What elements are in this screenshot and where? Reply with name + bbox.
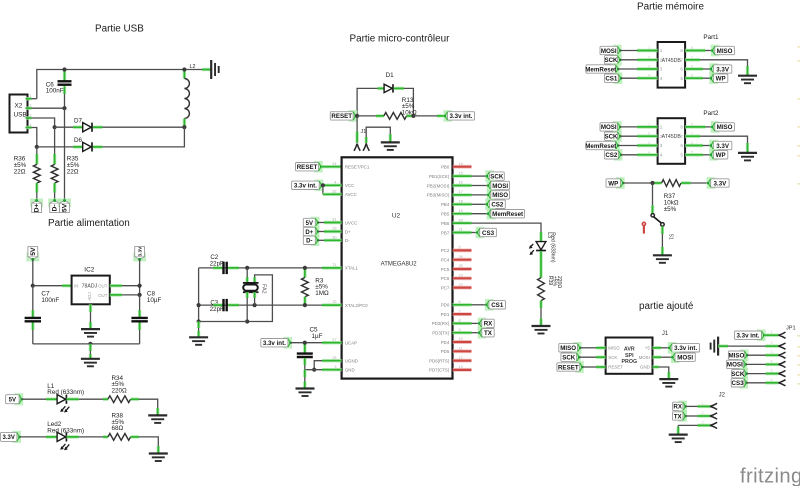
net label 3.3V (Part2) <box>709 140 732 152</box>
wire left rail to ground <box>197 322 200 338</box>
svg-text:Part1: Part1 <box>703 34 719 41</box>
wire MOSI to Part1 pin1 <box>620 50 658 52</box>
section title: Partie micro-controleur <box>350 34 451 45</box>
svg-text:MISO: MISO <box>728 353 744 360</box>
ground GND6 (J1) <box>381 142 400 150</box>
U2 pin 5 PC2 (right) <box>441 246 472 254</box>
svg-text:Part2: Part2 <box>703 110 719 117</box>
wire junction down to switch S1 <box>652 183 654 214</box>
net label WP (Part2) <box>709 149 728 161</box>
svg-text:3.3V: 3.3V <box>714 180 728 187</box>
svg-text:MOSI: MOSI <box>677 355 693 362</box>
net label WP (Part1) <box>709 72 728 84</box>
wire PB2 to MOSI label <box>472 185 489 187</box>
wire SCK to J1 <box>579 356 605 358</box>
net label MISO (J1) <box>559 342 582 354</box>
J2 pin 2 wire <box>685 411 717 419</box>
svg-text:D6: D6 <box>74 137 83 144</box>
svg-text:UCAP: UCAP <box>345 341 357 346</box>
svg-text:CS2: CS2 <box>605 152 618 159</box>
svg-text:MOSI: MOSI <box>727 362 743 369</box>
svg-text:CS3: CS3 <box>732 380 745 387</box>
U2 pin 6 PD0 (right) <box>441 300 472 308</box>
svg-text:100nF: 100nF <box>46 88 64 95</box>
node: left rail XTAL2 junction <box>197 303 201 307</box>
ground GND13 (J1) <box>659 379 678 387</box>
diode D7 <box>55 118 103 132</box>
svg-text:S1: S1 <box>668 234 674 240</box>
section title: Partie alimentation <box>48 218 130 229</box>
svg-text:SCK: SCK <box>604 57 618 64</box>
capacitor C7 <box>25 286 60 344</box>
wire bottom rail C7-C8 <box>33 343 140 345</box>
wire PD2 to RX label <box>472 322 480 324</box>
wire WP label to junction <box>623 182 652 184</box>
svg-text:partie ajouté: partie ajouté <box>639 301 694 312</box>
ground GND12 (S1) <box>653 255 672 262</box>
svg-text:PROG: PROG <box>621 359 637 365</box>
wire MemReset to Part2 pin3 <box>618 145 658 147</box>
svg-text:PD1: PD1 <box>441 312 450 317</box>
svg-text:JP1: JP1 <box>786 325 796 331</box>
wire S1 to ground <box>661 226 664 255</box>
svg-text:4: 4 <box>660 153 663 158</box>
svg-text:AT45DB: AT45DB <box>662 58 682 64</box>
net flag D+ <box>30 199 43 213</box>
wire VBUS top rail <box>37 70 185 99</box>
svg-text:CS1: CS1 <box>605 76 618 83</box>
wire RESET to J1 <box>582 366 605 368</box>
svg-text:8: 8 <box>680 125 683 130</box>
svg-text:XTAL1: XTAL1 <box>345 266 359 271</box>
wire R13 to 3.3v int label <box>413 115 444 117</box>
net label CS2 (U2) <box>485 199 505 211</box>
svg-text:PC2: PC2 <box>441 248 450 253</box>
svg-text:PC5: PC5 <box>441 267 450 272</box>
wire XTAL1 line <box>199 262 342 268</box>
svg-text:RX: RX <box>673 404 682 411</box>
svg-text:MISO: MISO <box>560 345 576 352</box>
svg-text:SPI: SPI <box>625 353 634 359</box>
capacitor C2 <box>210 254 239 274</box>
svg-text:D-: D- <box>345 238 350 243</box>
net flag 5V (down) at IC2 input <box>26 247 39 262</box>
svg-text:78ADJ: 78ADJ <box>82 284 98 290</box>
diode D1 <box>377 72 404 93</box>
net label CS1 (Part1) <box>604 72 622 84</box>
node: R3 bottom junction <box>303 303 307 307</box>
svg-text:1: 1 <box>333 262 335 266</box>
wire 5V net down to 5V flag <box>64 108 66 200</box>
svg-text:UVCC: UVCC <box>345 220 357 225</box>
svg-text:5: 5 <box>680 153 683 158</box>
wire D+ label to U2 <box>318 231 342 233</box>
resistor R34 <box>103 375 139 403</box>
wire R39 to ground <box>540 308 542 326</box>
net label D+ (U2) <box>303 226 319 238</box>
wire D7 cathode to L2 bottom <box>103 126 185 128</box>
net flag 3.3V (down) <box>133 246 146 262</box>
ground GND7 (crystal) <box>189 337 208 345</box>
resistor R35 <box>51 154 80 193</box>
wire Part2 pin8 to MISO label <box>685 125 712 128</box>
net label MISO (JP1) <box>728 349 748 361</box>
svg-text:FA2: FA2 <box>261 284 267 294</box>
svg-text:3: 3 <box>660 67 663 72</box>
svg-text:J1: J1 <box>361 129 367 135</box>
ground GND1 (right-pointing) top right of USB section <box>184 60 218 79</box>
svg-text:1: 1 <box>30 94 32 98</box>
U2 pin 15 PB1(SCK) (right) <box>429 171 471 179</box>
connector JP1 header <box>786 325 796 331</box>
svg-text:+5: +5 <box>645 346 651 351</box>
svg-text:Partie mémoire: Partie mémoire <box>637 1 704 12</box>
svg-text:D+: D+ <box>34 203 41 212</box>
svg-text:Partie USB: Partie USB <box>95 24 144 35</box>
svg-text:1MΩ: 1MΩ <box>315 290 329 297</box>
resistor R13 <box>357 97 417 120</box>
svg-text:MISO: MISO <box>608 346 620 351</box>
svg-text:PD7(CTS): PD7(CTS) <box>429 368 450 373</box>
wire CS2 to Part2 pin4 <box>621 154 658 156</box>
svg-text:PB5: PB5 <box>441 212 450 217</box>
svg-text:XTAL2/PC0: XTAL2/PC0 <box>345 303 368 308</box>
node: C6 top rail junction <box>62 67 66 71</box>
U2 pin 27 UCAP (left) <box>332 338 357 346</box>
wire X2 pin4 to D+ net vertical <box>32 128 37 147</box>
net label RX (U2) <box>478 318 494 330</box>
connector J2 header <box>719 393 726 399</box>
svg-text:2: 2 <box>30 104 32 108</box>
svg-text:MOSI: MOSI <box>601 124 617 131</box>
svg-text:CS3: CS3 <box>482 230 495 237</box>
svg-text:CS1: CS1 <box>491 302 504 309</box>
U2 pin 4 VCC (left) <box>334 181 354 189</box>
net label 3.3v int. (JP1) <box>735 329 766 341</box>
svg-text:5V: 5V <box>9 398 16 404</box>
net label WP (R37 row) <box>606 177 625 189</box>
wire J1 GND to ground <box>653 367 669 379</box>
wire R34 to ground <box>139 399 158 415</box>
net label MISO (Part2) <box>711 121 735 133</box>
svg-text:MISO: MISO <box>717 48 733 55</box>
net label MOSI (Part1) <box>600 45 622 57</box>
wire XTAL2 line <box>199 300 342 306</box>
svg-text:D-: D- <box>52 204 59 211</box>
svg-text:SCK: SCK <box>731 371 745 378</box>
U2 pin 23 PC6 (right) <box>441 274 472 282</box>
U2 pin 2 XTAL2/PC0 (left) <box>334 300 368 308</box>
wire X2 pin2 to C6 bottom / 5V net <box>32 94 65 108</box>
svg-text:PD4: PD4 <box>441 340 450 345</box>
svg-text:RESET: RESET <box>297 164 318 171</box>
svg-text:PB4: PB4 <box>441 202 450 207</box>
node: D7 anode junction <box>53 125 57 129</box>
svg-text:PC7: PC7 <box>441 285 450 290</box>
inductor L2 <box>184 64 195 126</box>
U2 pin 7 PD1 (right) <box>441 309 472 317</box>
net label MOSI (Part2) <box>600 121 622 133</box>
connector X2 USB <box>10 94 32 133</box>
connector J1 pin 2 <box>363 127 390 151</box>
svg-text:5V: 5V <box>30 247 37 256</box>
svg-text:6: 6 <box>680 143 683 148</box>
svg-text:RESET: RESET <box>331 113 352 120</box>
node: WP/R37/S1 junction <box>650 181 654 185</box>
wire PB4 to CS2 label <box>472 203 487 205</box>
wire 3.3v int to VCC junction <box>322 184 342 186</box>
svg-text:PC4: PC4 <box>441 258 450 263</box>
J2 pin 3 wire to ground <box>678 420 717 434</box>
wire R36 to D+ flag <box>36 193 38 201</box>
svg-text:3: 3 <box>660 143 663 148</box>
LED L1 <box>22 383 84 413</box>
fritzing watermark logo <box>740 466 800 486</box>
wire crystal pin2 to XTAL2 junction <box>254 298 256 305</box>
svg-text:AVCC: AVCC <box>345 192 357 197</box>
U2 pin 14 PB0 (right) <box>441 162 472 170</box>
node: L2 bottom / diode junction <box>182 125 186 129</box>
svg-text:220Ω: 220Ω <box>556 276 562 288</box>
switch S1 <box>651 214 674 240</box>
U2 pin 8 PD2(RX) (right) <box>432 319 472 327</box>
svg-text:±5%: ±5% <box>664 206 677 213</box>
wire crystal bracket <box>247 275 272 322</box>
wire Part2 pin7 to ground <box>685 136 747 153</box>
net label RESET (R13 row) <box>296 161 323 173</box>
wire 3.3V flag down through OUT junctions <box>139 259 141 295</box>
wire 3.3v int label to UCAP <box>291 342 342 344</box>
svg-text:3.3v int.: 3.3v int. <box>449 113 472 120</box>
svg-text:TX: TX <box>674 413 683 420</box>
U2 pin 28 UGND (left) <box>332 356 358 364</box>
wire Part1 pin7 to ground <box>685 60 747 76</box>
JP1 pin 6 wire <box>747 378 786 386</box>
svg-text:5V: 5V <box>62 203 69 212</box>
capacitor C6 <box>46 70 72 95</box>
svg-text:RESET/PC1: RESET/PC1 <box>345 165 370 170</box>
svg-text:24: 24 <box>332 162 336 166</box>
svg-text:USB: USB <box>14 112 27 119</box>
wire left rail (C2/C3 ground) <box>199 268 248 322</box>
net label 3.3v int. (VCC) <box>292 180 324 192</box>
svg-text:IN: IN <box>74 284 78 289</box>
wire C5 bottom to GND line <box>304 365 306 370</box>
JP1 pin 4 wire <box>746 359 786 367</box>
svg-text:1: 1 <box>660 48 663 53</box>
U2 pin 11 PD5 (right) <box>441 347 472 355</box>
diode D6 <box>37 137 103 151</box>
svg-text:D+: D+ <box>345 229 351 234</box>
svg-text:2: 2 <box>660 58 663 63</box>
wire PB1 to SCK label <box>472 175 487 177</box>
net label CS1 (U2) <box>485 299 506 311</box>
net label RESET (J1) <box>557 361 584 373</box>
node: OUT1 junction <box>138 284 142 288</box>
svg-text:3.3v int.: 3.3v int. <box>736 333 759 340</box>
wire crystal pin1 down to bottom rail <box>246 298 248 322</box>
wire X2 pin3 to D- net vertical <box>32 118 55 127</box>
wire 5V flag to IC2 IN <box>32 259 34 285</box>
svg-text:MemReset: MemReset <box>492 211 523 218</box>
wire D6 cathode up to junction <box>103 127 185 147</box>
ground GND8 (C5) <box>296 389 315 397</box>
U2 pin 19 PB5 (right) <box>441 209 472 217</box>
net label SCK (Part1) <box>604 54 621 66</box>
node: bottom rail ground junction <box>88 342 92 346</box>
U2 pin 10 PD4 (right) <box>441 337 472 345</box>
svg-text:100nF: 100nF <box>41 297 59 304</box>
ground GND11 (Part2) <box>738 153 757 161</box>
ground GND5 (Led2 row) <box>149 454 168 462</box>
U2 pin 26 PC4 (right) <box>441 255 472 263</box>
net label SCK (U2) <box>485 170 504 182</box>
wire SCK to Part1 pin2 <box>620 59 657 61</box>
net label 5V (UVCC) <box>303 217 319 229</box>
svg-text:WP: WP <box>716 76 726 83</box>
svg-text:RESET: RESET <box>558 364 579 371</box>
svg-text:220Ω: 220Ω <box>112 387 128 394</box>
svg-text:Partie alimentation: Partie alimentation <box>48 218 130 229</box>
capacitor C8 <box>131 291 161 344</box>
net label 3.3v int. (J1) <box>668 342 700 354</box>
wire D- label to U2 <box>318 239 342 241</box>
net label 3.3V (Led2 row) <box>1 431 22 443</box>
U2 pin 22 PC7 (right) <box>441 283 472 291</box>
node: C5 top junction <box>303 341 307 345</box>
JP1 pin 2 wire <box>718 341 785 349</box>
net label MISO (Part1) <box>711 45 735 57</box>
svg-text:PC6: PC6 <box>441 276 450 281</box>
net label SCK (J1) <box>561 351 581 363</box>
svg-text:PB6: PB6 <box>441 221 450 226</box>
net label CS2 (Part2) <box>604 149 622 161</box>
svg-text:SCK: SCK <box>608 355 617 360</box>
svg-text:MOSI: MOSI <box>601 48 617 55</box>
wire D1 loop left <box>357 88 377 116</box>
svg-text:22Ω: 22Ω <box>14 169 26 176</box>
node: crystal top junction <box>245 266 249 270</box>
resistor R37 <box>653 180 691 213</box>
svg-text:PD2(RX): PD2(RX) <box>432 321 450 326</box>
JP1 pin 1 <box>764 330 785 338</box>
svg-text:Red (633nm): Red (633nm) <box>550 232 556 263</box>
wire Part2 pin5 to WP label <box>685 153 711 156</box>
J2 pin 1 wire <box>685 401 717 409</box>
net label 3.3V (Part1) <box>709 63 732 75</box>
svg-text:PD0: PD0 <box>441 303 450 308</box>
svg-text:RESET: RESET <box>608 365 623 370</box>
svg-text:GND: GND <box>345 368 355 373</box>
net label RESET at D1/R13 <box>330 110 357 122</box>
resistor R39 <box>538 258 563 308</box>
JP1 pin 3 wire <box>747 350 786 358</box>
wire D- net down to R35 <box>54 127 56 154</box>
svg-text:VCC: VCC <box>345 183 354 188</box>
node: C7 / IN junction <box>31 284 35 288</box>
svg-text:Partie micro-contrôleur: Partie micro-contrôleur <box>350 34 451 45</box>
node: 5V net junction below C6 <box>62 106 66 110</box>
ground GND3 below bottom rail <box>81 359 100 367</box>
node: D6 anode junction <box>35 145 39 149</box>
svg-text:MISO: MISO <box>492 192 508 199</box>
wire UGND corner <box>314 361 341 370</box>
U2 pin 16 PB2(MOSI) (right) <box>427 181 472 189</box>
flash memory AT45DB Part1 <box>648 34 719 88</box>
LED Led2 <box>20 421 85 450</box>
capacitor C3 <box>210 299 239 313</box>
net flag D- <box>48 199 61 213</box>
net label MemReset (Part1) <box>585 63 619 75</box>
svg-text:OUT: OUT <box>98 293 108 298</box>
svg-text:AT45DB: AT45DB <box>662 134 682 140</box>
U2 pin 29 D+ (left) <box>332 227 351 235</box>
wire junction to IC2 IN pin <box>33 285 72 287</box>
wire SCK to Part2 pin2 <box>620 135 657 137</box>
resistor R36 <box>14 154 41 193</box>
svg-text:3: 3 <box>30 113 32 117</box>
wire Part1 pin5 to WP label <box>685 76 711 79</box>
svg-text:3.3V: 3.3V <box>3 435 15 441</box>
svg-text:6: 6 <box>680 67 683 72</box>
net label CS3 (JP1) <box>731 377 748 389</box>
svg-text:SCK: SCK <box>562 355 576 362</box>
svg-text:MOSI: MOSI <box>639 355 650 360</box>
svg-text:WP: WP <box>608 180 618 187</box>
wire X2 pin1 to top rail <box>32 98 37 100</box>
svg-text:WP: WP <box>716 152 726 159</box>
svg-text:2: 2 <box>660 134 663 139</box>
svg-text:1: 1 <box>660 125 663 130</box>
wire J1 +5 to 3.3v int label <box>653 346 670 349</box>
svg-text:J1: J1 <box>662 331 669 337</box>
U2 pin 31 UVCC (left) <box>332 218 357 226</box>
svg-text:GND: GND <box>640 365 650 370</box>
net label MemReset (U2) <box>487 208 525 220</box>
wire IC2 OUT1 to 3.3V net <box>110 284 140 287</box>
IC U2 ATMEGA8U2 body <box>342 157 453 378</box>
voltage regulator IC2 78ADJ <box>72 266 110 304</box>
ground GND15 (J2) <box>669 435 688 443</box>
wire MOSI to Part2 pin1 <box>620 126 658 128</box>
wire CS1 to Part1 pin4 <box>621 77 658 79</box>
svg-text:D-: D- <box>306 239 312 245</box>
svg-text:2: 2 <box>333 300 335 304</box>
wire PD3 to TX label <box>472 332 480 334</box>
LED L3 <box>529 232 556 263</box>
svg-text:MemReset: MemReset <box>585 66 616 73</box>
crystal FA2 <box>243 268 267 298</box>
svg-text:3.3V: 3.3V <box>716 143 730 150</box>
U2 pin 30 D- (left) <box>332 236 350 244</box>
svg-text:ATMEGA8U2: ATMEGA8U2 <box>381 262 418 268</box>
faint canvas edge marks (right) <box>797 46 800 385</box>
net flag 5V <box>58 199 71 213</box>
U2 pin 12 PD6(RTS) (right) <box>429 356 471 364</box>
ground GND14 (left-pointing, JP1 pin2) <box>711 337 719 356</box>
svg-text:10µF: 10µF <box>147 297 162 304</box>
wire junction down to AVCC <box>323 185 342 194</box>
wire PD0 to CS1 label <box>472 304 487 306</box>
wire R38 to ground <box>139 437 158 454</box>
wire RESET label to junction <box>321 165 341 168</box>
net label D- (U2) <box>303 235 319 247</box>
svg-text:PB2(MOSI): PB2(MOSI) <box>427 183 450 188</box>
svg-text:J2: J2 <box>719 393 726 399</box>
U2 pin 17 PB3(MISO) (right) <box>427 190 472 198</box>
U2 pin 18 PB4 (right) <box>441 200 472 208</box>
svg-text:SCK: SCK <box>604 134 618 141</box>
